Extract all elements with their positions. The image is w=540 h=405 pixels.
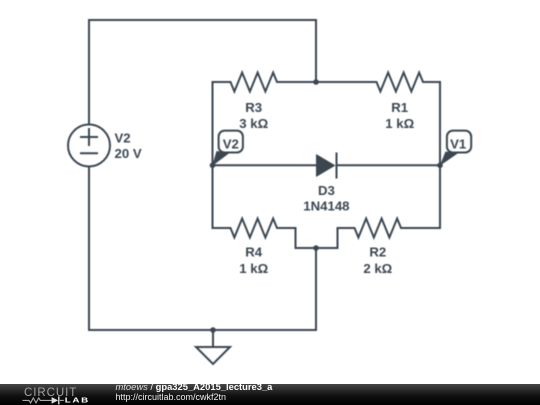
svg-text:V1: V1 bbox=[450, 136, 466, 151]
svg-text:1 kΩ: 1 kΩ bbox=[239, 261, 268, 276]
svg-text:20 V: 20 V bbox=[115, 146, 142, 161]
svg-text:D3: D3 bbox=[318, 183, 335, 198]
svg-text:V2: V2 bbox=[115, 130, 131, 145]
svg-text:1N4148: 1N4148 bbox=[303, 199, 349, 214]
svg-text:1 kΩ: 1 kΩ bbox=[385, 116, 414, 131]
svg-text:2 kΩ: 2 kΩ bbox=[363, 261, 392, 276]
svg-text:3 kΩ: 3 kΩ bbox=[239, 116, 268, 131]
svg-text:R3: R3 bbox=[245, 100, 262, 115]
svg-text:R2: R2 bbox=[369, 245, 386, 260]
svg-text:R4: R4 bbox=[245, 245, 263, 260]
svg-text:V2: V2 bbox=[223, 136, 239, 151]
svg-text:http://circuitlab.com/cwkf2tn: http://circuitlab.com/cwkf2tn bbox=[116, 392, 227, 402]
svg-text:R1: R1 bbox=[391, 100, 408, 115]
svg-text:LAB: LAB bbox=[65, 395, 90, 404]
